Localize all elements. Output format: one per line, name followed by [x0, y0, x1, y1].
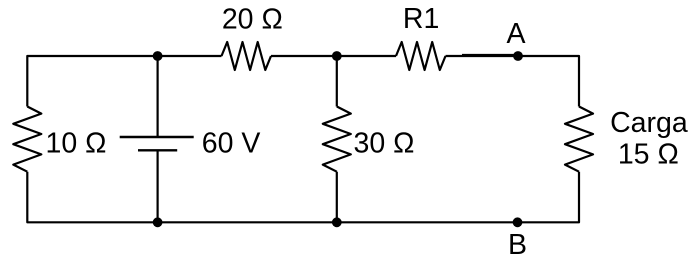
wire top segment from R1 through node A to top-right corner: [446, 56, 580, 107]
resistor 20Ω (top left): [222, 42, 272, 70]
svg-text:30 Ω: 30 Ω: [354, 128, 415, 160]
svg-text:60 V: 60 V: [202, 128, 261, 160]
battery 60V short plate: [138, 149, 177, 151]
junction dot at 30Ω bottom node: [332, 217, 342, 227]
svg-text:A: A: [506, 18, 525, 50]
junction dot at battery top node: [153, 51, 163, 61]
resistor 10Ω (left branch): [13, 107, 41, 172]
svg-text:B: B: [508, 229, 527, 261]
wire bottom rail from bottom-left corner to bottom-right corner: [27, 172, 579, 223]
wire top segment between 20Ω and R1: [271, 55, 396, 57]
battery 60V long plate: [120, 136, 194, 138]
resistor R1 (top right): [396, 42, 446, 70]
junction dot at 30Ω top node: [332, 51, 342, 61]
junction dot at battery bottom node: [153, 217, 163, 227]
wire top segment from top-left corner to 20Ω resistor: [27, 56, 221, 107]
wire overlap segment into node A (thicker): [462, 54, 518, 57]
svg-text:Carga: Carga: [610, 107, 688, 139]
wire 30Ω branch lower: [336, 172, 338, 223]
svg-text:20 Ω: 20 Ω: [222, 4, 283, 36]
wire 30Ω branch upper: [336, 56, 338, 107]
load resistor Carga 15Ω (right branch): [565, 107, 593, 172]
svg-text:R1: R1: [403, 3, 439, 35]
wire battery branch upper: [157, 56, 159, 137]
node A dot: [513, 51, 523, 61]
wire battery branch lower: [157, 150, 159, 222]
svg-text:15 Ω: 15 Ω: [618, 139, 679, 171]
node B dot: [513, 217, 523, 227]
resistor 30Ω (middle branch): [323, 107, 351, 172]
svg-text:10 Ω: 10 Ω: [46, 128, 107, 160]
